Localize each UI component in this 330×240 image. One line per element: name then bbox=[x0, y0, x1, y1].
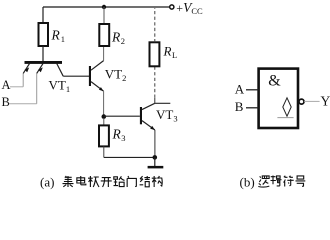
node ground junction bbox=[153, 155, 158, 160]
resistor R1 bbox=[39, 23, 49, 46]
wire VT2 emitter lead bbox=[103, 91, 105, 114]
svg-text:(a): (a) bbox=[40, 175, 54, 190]
transistor VT3 collector diagonal bbox=[142, 103, 155, 109]
wire VT1 collector to VT2 base bbox=[63, 75, 89, 77]
wire VT3 emitter lead bbox=[154, 130, 156, 157]
svg-text:&: & bbox=[268, 73, 281, 90]
transistor VT1 collector diagonal bbox=[57, 64, 63, 77]
wire emitter2 vertical bbox=[36, 73, 38, 103]
resistor R2 bbox=[99, 24, 109, 46]
wire input B bbox=[10, 103, 37, 105]
wire R1 bottom lead bbox=[42, 46, 44, 61]
caption (b) hanzi 逻辑符号 bbox=[258, 176, 305, 188]
open-collector underline bbox=[277, 117, 293, 119]
svg-text:A: A bbox=[235, 81, 245, 96]
transistor VT2 emitter arrow bbox=[99, 87, 104, 91]
transistor VT2 collector diagonal bbox=[91, 61, 104, 71]
transistor VT3 base bar bbox=[140, 107, 142, 124]
transistor VT1 base bar bbox=[25, 61, 63, 64]
wire node to VT3 base bbox=[104, 115, 140, 117]
wire output stub bbox=[155, 102, 171, 104]
transistor VT3 emitter arrow bbox=[150, 126, 155, 130]
node top junction (R2 to rail) bbox=[102, 5, 106, 9]
wire R2 top lead bbox=[103, 7, 105, 24]
svg-text:A: A bbox=[2, 78, 11, 92]
wire input A bbox=[10, 86, 23, 88]
svg-text:B: B bbox=[2, 95, 10, 109]
transistor VT2 base bar bbox=[89, 66, 91, 86]
wire R1 top lead bbox=[42, 7, 44, 23]
caption (a) hanzi 集电极开路门结构 bbox=[63, 176, 163, 187]
svg-text:B: B bbox=[235, 99, 244, 114]
wire top rail VCC bbox=[43, 6, 169, 8]
transistor VT1 emitter 2 arrow bbox=[38, 67, 43, 72]
transistor VT2 emitter diagonal bbox=[91, 82, 104, 92]
ground bbox=[148, 157, 164, 168]
svg-text:Y: Y bbox=[321, 94, 330, 109]
transistor VT3 emitter diagonal bbox=[142, 121, 155, 130]
wire dashed lower (external RL) bbox=[154, 66, 156, 98]
wire gate input B bbox=[246, 107, 259, 109]
node mid junction bbox=[102, 114, 107, 119]
gate output bubble bbox=[299, 99, 304, 104]
transistor VT1 emitter 1 arrow bbox=[25, 67, 30, 72]
wire R3 top lead bbox=[103, 118, 105, 125]
power terminal +VCC bbox=[170, 0, 203, 16]
wire dashed upper (external RL) bbox=[154, 8, 156, 42]
wire gate output Y bbox=[304, 100, 320, 102]
open-collector diamond symbol bbox=[283, 98, 291, 116]
transistor VT1 emitter 2 bbox=[37, 64, 43, 74]
resistor RL bbox=[150, 42, 160, 66]
resistor R3 bbox=[99, 125, 109, 146]
wire gate input A bbox=[246, 89, 259, 91]
svg-text:(b): (b) bbox=[240, 175, 255, 190]
wire bottom to ground node bbox=[104, 156, 155, 158]
transistor VT1 emitter 1 bbox=[23, 64, 29, 74]
op gate U1 rectangle bbox=[259, 69, 298, 128]
wire emitter1 vertical bbox=[22, 73, 24, 86]
wire VT2 collector lead bbox=[103, 46, 105, 61]
wire R3 bottom lead bbox=[103, 146, 105, 157]
wire VT3 collector vertical bbox=[154, 98, 156, 104]
